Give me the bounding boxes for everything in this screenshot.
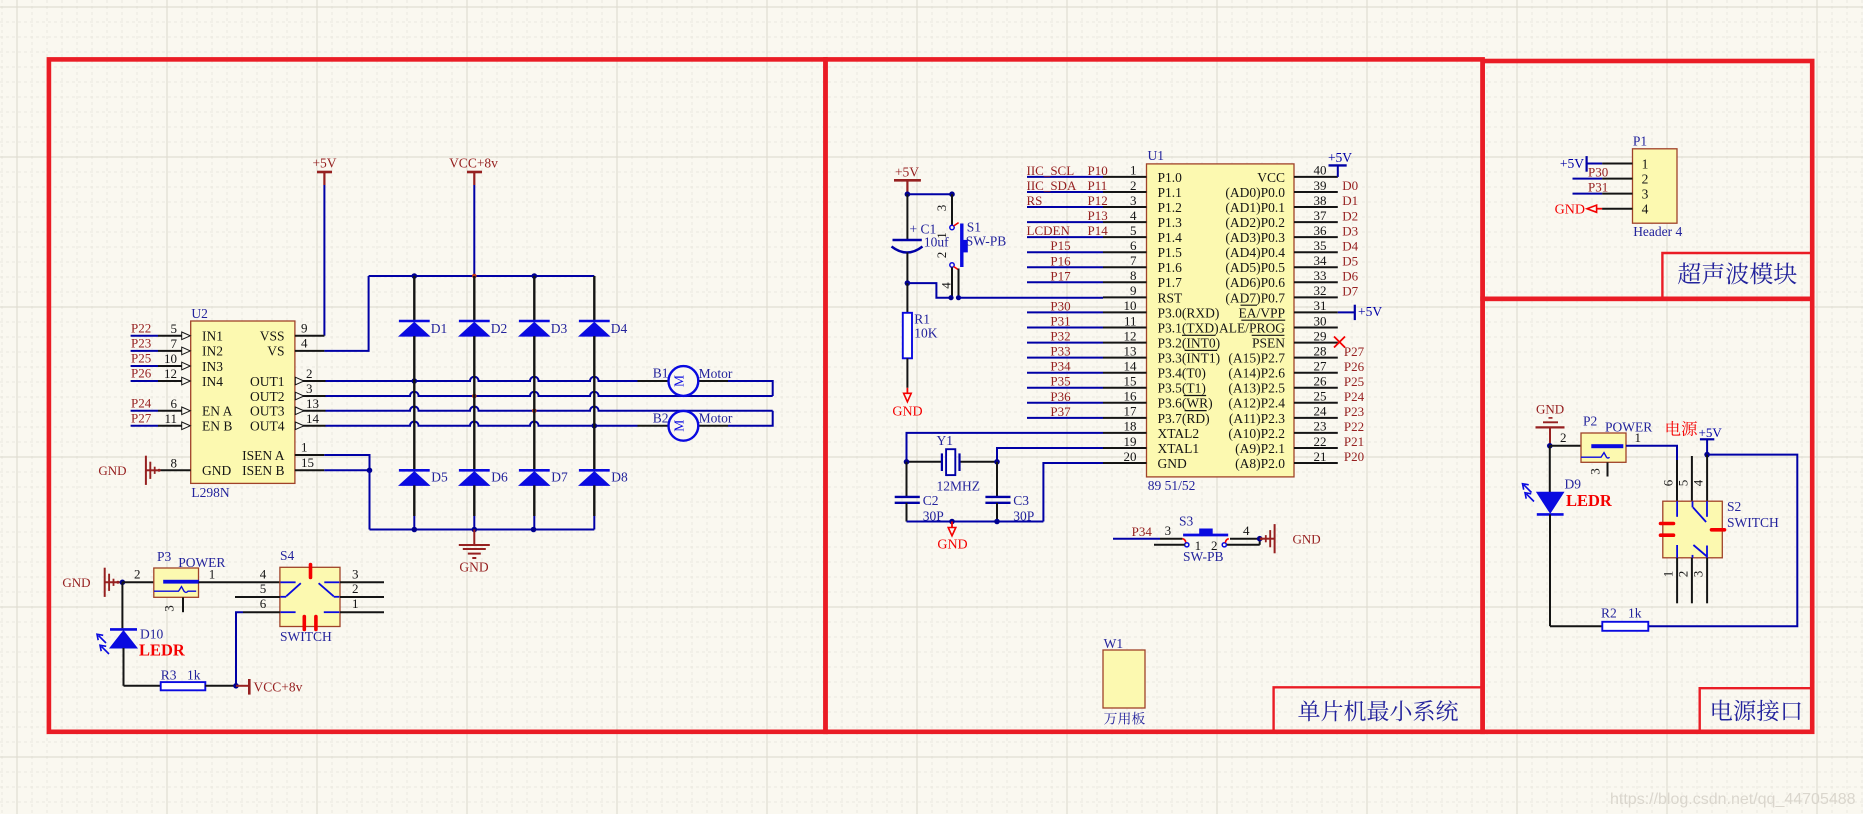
svg-text:P34: P34 bbox=[1050, 359, 1071, 374]
svg-text:P3.1(TXD): P3.1(TXD) bbox=[1158, 320, 1219, 335]
svg-text:19: 19 bbox=[1124, 434, 1137, 449]
svg-text:P31: P31 bbox=[1588, 179, 1608, 194]
junction dots ground bus bbox=[412, 527, 418, 533]
svg-text:P1.6: P1.6 bbox=[1158, 260, 1183, 275]
svg-text:9: 9 bbox=[1130, 283, 1137, 298]
svg-text:6: 6 bbox=[171, 396, 178, 411]
diode D4 bbox=[593, 276, 595, 321]
svg-text:P31: P31 bbox=[1050, 314, 1070, 329]
svg-text:M: M bbox=[671, 375, 686, 387]
svg-text:P1.0: P1.0 bbox=[1158, 170, 1183, 185]
wire C1 to RST bbox=[907, 283, 952, 298]
svg-text:S4: S4 bbox=[280, 548, 295, 563]
wire R3 to VCC junction bbox=[205, 685, 236, 687]
switch S2 body bbox=[1663, 501, 1723, 558]
svg-text:14: 14 bbox=[306, 411, 320, 426]
motor B1 bbox=[698, 380, 728, 382]
svg-text:Header 4: Header 4 bbox=[1633, 224, 1682, 239]
svg-text:D4: D4 bbox=[1342, 238, 1358, 253]
svg-text:(AD7)P0.7: (AD7)P0.7 bbox=[1225, 290, 1285, 305]
title box power interface bbox=[1700, 688, 1813, 732]
svg-text:P33: P33 bbox=[1050, 344, 1070, 359]
svg-text:35: 35 bbox=[1314, 238, 1327, 253]
title box MCU minimal system bbox=[1274, 687, 1483, 732]
svg-text:EA/VPP: EA/VPP bbox=[1238, 305, 1285, 320]
svg-text:21: 21 bbox=[1314, 449, 1327, 464]
svg-text:P14: P14 bbox=[1088, 223, 1109, 238]
svg-text:EN B: EN B bbox=[202, 419, 232, 434]
svg-text:1: 1 bbox=[1195, 538, 1202, 553]
red junction VCC+8v at D2 column bbox=[472, 274, 477, 279]
svg-text:SW-PB: SW-PB bbox=[966, 234, 1007, 249]
svg-text:3: 3 bbox=[1642, 187, 1649, 202]
svg-text:8: 8 bbox=[1130, 268, 1137, 283]
junction OUT4-D4 column bbox=[592, 423, 598, 429]
net label P30 at P1 pin 2 bbox=[1573, 178, 1603, 180]
svg-text:GND: GND bbox=[1536, 402, 1564, 417]
U2 pin ISEN A wire bbox=[295, 454, 324, 456]
svg-text:D5: D5 bbox=[1342, 254, 1358, 269]
svg-text:Motor: Motor bbox=[699, 366, 733, 381]
svg-text:D8: D8 bbox=[611, 469, 628, 484]
svg-text:P3.5(T1): P3.5(T1) bbox=[1158, 381, 1206, 396]
svg-text:LEDR: LEDR bbox=[1566, 491, 1613, 510]
VCC+8v top bus bbox=[369, 275, 595, 277]
wire P3 pin1 to S4 pin4 bbox=[199, 581, 280, 583]
red junction OUT2-D2 column bbox=[472, 394, 477, 399]
svg-text:4: 4 bbox=[260, 566, 267, 581]
wire GND junction to LED D10 bbox=[121, 582, 123, 628]
svg-text:VSS: VSS bbox=[260, 329, 285, 344]
header P1 body bbox=[1633, 149, 1678, 223]
svg-text:39: 39 bbox=[1314, 178, 1327, 193]
svg-text:2: 2 bbox=[1211, 538, 1218, 553]
wire LED to R3 bbox=[124, 685, 161, 687]
svg-text:ISEN B: ISEN B bbox=[242, 463, 284, 478]
wire U1 GND pin 20 bbox=[1043, 463, 1103, 522]
diode D6 bbox=[459, 469, 490, 472]
svg-text:P2: P2 bbox=[1583, 413, 1597, 428]
svg-text:D7: D7 bbox=[1342, 284, 1358, 299]
svg-text:(AD5)P0.5: (AD5)P0.5 bbox=[1225, 260, 1285, 275]
wire +5V to VSS bbox=[323, 185, 325, 336]
wire RST to U1 pin 9 bbox=[959, 297, 1104, 299]
svg-text:GND: GND bbox=[937, 538, 967, 553]
svg-text:3: 3 bbox=[306, 381, 313, 396]
capacitor C2 30P bbox=[906, 462, 908, 496]
svg-text:27: 27 bbox=[1314, 359, 1328, 374]
svg-text:IN4: IN4 bbox=[202, 374, 223, 389]
svg-text:+5V: +5V bbox=[895, 165, 919, 180]
svg-text:SWITCH: SWITCH bbox=[280, 629, 332, 644]
U1 overbar marks bbox=[1182, 334, 1216, 336]
svg-text:P22: P22 bbox=[131, 320, 151, 335]
svg-text:IIC_SCL: IIC_SCL bbox=[1027, 163, 1075, 178]
section border: MCU block bbox=[826, 59, 1483, 731]
U2 output pins OUT1-OUT4 bbox=[295, 380, 326, 382]
svg-text:2: 2 bbox=[352, 581, 359, 596]
svg-text:4: 4 bbox=[1642, 202, 1649, 217]
svg-text:GND: GND bbox=[1293, 531, 1321, 546]
wire OUT2 return loop bbox=[326, 392, 773, 396]
svg-text:11: 11 bbox=[164, 411, 177, 426]
svg-text:EN A: EN A bbox=[202, 404, 233, 419]
svg-text:D9: D9 bbox=[1565, 477, 1582, 492]
svg-text:https://blog.csdn.net/qq_44705: https://blog.csdn.net/qq_44705488 bbox=[1610, 791, 1856, 808]
svg-text:P1.2: P1.2 bbox=[1158, 200, 1182, 215]
svg-text:(A8)P2.0: (A8)P2.0 bbox=[1235, 456, 1285, 471]
svg-text:3: 3 bbox=[162, 605, 177, 612]
svg-text:11: 11 bbox=[1124, 313, 1137, 328]
connector P2 POWER bbox=[1581, 433, 1626, 462]
section border: power block bbox=[1483, 299, 1813, 732]
svg-text:(AD2)P0.2: (AD2)P0.2 bbox=[1225, 215, 1285, 230]
LED D10 bbox=[110, 628, 137, 631]
svg-text:5: 5 bbox=[1676, 480, 1691, 487]
svg-text:1: 1 bbox=[1660, 571, 1675, 578]
svg-text:33: 33 bbox=[1314, 268, 1327, 283]
svg-text:U2: U2 bbox=[191, 306, 208, 321]
ground symbol at U2 pin 8 bbox=[145, 456, 147, 485]
svg-text:R1: R1 bbox=[914, 311, 930, 326]
svg-text:P23: P23 bbox=[131, 336, 151, 351]
svg-text:1: 1 bbox=[1635, 430, 1642, 445]
svg-text:23: 23 bbox=[1314, 419, 1327, 434]
svg-text:Motor: Motor bbox=[699, 411, 733, 426]
svg-text:(AD3)P0.3: (AD3)P0.3 bbox=[1225, 230, 1285, 245]
wire VCC+8v to bus bbox=[473, 185, 475, 276]
S4 right leads pins 3 2 1 bbox=[340, 581, 384, 583]
S2 pin 5 lead bbox=[1691, 456, 1693, 501]
S4 red actuator marks bbox=[309, 565, 313, 578]
svg-text:P3.2(INT0): P3.2(INT0) bbox=[1158, 336, 1221, 351]
svg-text:W1: W1 bbox=[1104, 636, 1124, 651]
wire GND to P3 pin 2 bbox=[122, 581, 153, 583]
S2 contacts bbox=[1676, 501, 1678, 517]
svg-text:15: 15 bbox=[1124, 374, 1137, 389]
junction dots on top bus bbox=[412, 273, 418, 279]
earth ground symbol below diode bus bbox=[473, 530, 475, 545]
svg-text:+5V: +5V bbox=[1699, 425, 1723, 440]
S2 pin 4 lead bbox=[1706, 455, 1708, 502]
svg-text:2: 2 bbox=[934, 252, 949, 259]
svg-text:38: 38 bbox=[1314, 193, 1327, 208]
svg-text:P25: P25 bbox=[1344, 374, 1364, 389]
svg-text:IIC_SDA: IIC_SDA bbox=[1027, 178, 1077, 193]
svg-text:U1: U1 bbox=[1148, 148, 1165, 163]
diode D3 bbox=[533, 276, 535, 321]
svg-text:D2: D2 bbox=[491, 321, 508, 336]
svg-text:P30: P30 bbox=[1588, 164, 1608, 179]
svg-text:2: 2 bbox=[306, 366, 313, 381]
svg-text:25: 25 bbox=[1314, 389, 1327, 404]
svg-text:(A10)P2.2: (A10)P2.2 bbox=[1228, 426, 1285, 441]
svg-text:26: 26 bbox=[1314, 374, 1328, 389]
svg-text:2: 2 bbox=[1130, 178, 1137, 193]
S4 contacts bbox=[280, 581, 295, 583]
svg-text:10: 10 bbox=[1124, 298, 1137, 313]
svg-text:4: 4 bbox=[1243, 523, 1250, 538]
svg-text:GND: GND bbox=[1158, 456, 1187, 471]
svg-text:4: 4 bbox=[938, 282, 953, 289]
svg-text:+5V: +5V bbox=[1358, 304, 1382, 319]
svg-text:P12: P12 bbox=[1088, 193, 1108, 208]
svg-text:7: 7 bbox=[171, 336, 178, 351]
svg-text:36: 36 bbox=[1314, 223, 1328, 238]
IC U1 89C51 body bbox=[1147, 164, 1295, 477]
no-connect X at pin 29 bbox=[1334, 337, 1345, 348]
svg-text:ALE/PROG: ALE/PROG bbox=[1219, 320, 1285, 335]
svg-text:P26: P26 bbox=[1344, 359, 1365, 374]
svg-text:16: 16 bbox=[1124, 389, 1138, 404]
svg-text:28: 28 bbox=[1314, 343, 1327, 358]
svg-text:10K: 10K bbox=[914, 325, 938, 340]
svg-text:XTAL2: XTAL2 bbox=[1158, 426, 1200, 441]
svg-text:4: 4 bbox=[301, 336, 308, 351]
U1 left pin leads bbox=[1103, 176, 1147, 178]
svg-text:P1.1: P1.1 bbox=[1158, 185, 1182, 200]
svg-text:1: 1 bbox=[209, 566, 216, 581]
svg-text:P22: P22 bbox=[1344, 419, 1364, 434]
red junction OUT3-D3 column bbox=[532, 409, 537, 414]
svg-text:18: 18 bbox=[1124, 419, 1137, 434]
svg-text:(AD0)P0.0: (AD0)P0.0 bbox=[1225, 185, 1285, 200]
svg-text:D1: D1 bbox=[431, 321, 448, 336]
svg-text:VCC+8v: VCC+8v bbox=[254, 679, 303, 694]
svg-text:OUT2: OUT2 bbox=[250, 389, 285, 404]
capacitor C3 30P bbox=[996, 462, 998, 496]
svg-text:P3.6(WR): P3.6(WR) bbox=[1158, 396, 1213, 411]
svg-text:D7: D7 bbox=[551, 469, 568, 484]
U1 right pin leads bbox=[1294, 176, 1338, 178]
wire crystal ground bus bbox=[907, 521, 1044, 523]
svg-text:D5: D5 bbox=[431, 469, 448, 484]
svg-text:15: 15 bbox=[301, 455, 314, 470]
diode D7 bbox=[519, 469, 550, 472]
svg-text:R3: R3 bbox=[161, 667, 177, 682]
svg-text:GND: GND bbox=[98, 463, 126, 478]
diode D1 bbox=[413, 276, 415, 321]
svg-text:P1.7: P1.7 bbox=[1158, 275, 1183, 290]
svg-text:OUT3: OUT3 bbox=[250, 404, 285, 419]
junction ISEN A/B bbox=[367, 468, 373, 474]
svg-text:2: 2 bbox=[1642, 172, 1649, 187]
resistor R3 1k bbox=[161, 682, 206, 690]
svg-text:(AD4)P0.4: (AD4)P0.4 bbox=[1225, 245, 1285, 260]
svg-text:P15: P15 bbox=[1050, 238, 1070, 253]
perfboard W1 bbox=[1103, 650, 1145, 708]
motor B2 bbox=[698, 425, 728, 427]
svg-text:(A15)P2.7: (A15)P2.7 bbox=[1228, 351, 1285, 366]
svg-text:Y1: Y1 bbox=[937, 433, 954, 448]
svg-text:VCC: VCC bbox=[1257, 170, 1285, 185]
svg-text:13: 13 bbox=[1124, 343, 1137, 358]
U2 input pins with net labels P22 P23 P25 P26 P24 P27 bbox=[131, 335, 158, 337]
S2 red actuator marks bbox=[1661, 522, 1674, 526]
svg-text:1: 1 bbox=[1130, 163, 1137, 178]
ground symbol at S3 bbox=[1260, 538, 1275, 540]
svg-text:7: 7 bbox=[1130, 253, 1137, 268]
svg-text:P27: P27 bbox=[1344, 344, 1365, 359]
svg-text:RST: RST bbox=[1158, 290, 1184, 305]
svg-text:+5V: +5V bbox=[1560, 156, 1584, 171]
svg-text:XTAL1: XTAL1 bbox=[1158, 441, 1200, 456]
svg-text:GND: GND bbox=[62, 575, 90, 590]
ground bus under diodes bbox=[370, 529, 595, 531]
LED D9 bbox=[1549, 446, 1551, 493]
svg-text:+5V: +5V bbox=[1328, 150, 1352, 165]
svg-text:C3: C3 bbox=[1013, 493, 1029, 508]
IC U2 L298N body bbox=[191, 321, 295, 483]
S4 pin 6 lead bbox=[243, 611, 280, 613]
svg-text:1: 1 bbox=[301, 440, 308, 455]
wire OUT3 to motor B2 bbox=[326, 406, 773, 410]
svg-text:P25: P25 bbox=[131, 351, 151, 366]
junction C1 R1 bbox=[905, 280, 911, 286]
svg-text:P10: P10 bbox=[1088, 163, 1108, 178]
svg-text:P24: P24 bbox=[131, 395, 152, 410]
svg-text:2: 2 bbox=[134, 566, 141, 581]
switch S3 SW-PB bbox=[1113, 538, 1160, 540]
capacitor C1 10uf bbox=[906, 194, 908, 239]
svg-text:(A12)P2.4: (A12)P2.4 bbox=[1228, 396, 1285, 411]
svg-text:S2: S2 bbox=[1727, 499, 1741, 514]
svg-text:IN2: IN2 bbox=[202, 344, 223, 359]
section border: motor driver block bbox=[49, 59, 826, 731]
svg-text:D4: D4 bbox=[611, 321, 628, 336]
svg-text:PSEN: PSEN bbox=[1252, 336, 1285, 351]
P2 pin 3 bbox=[1607, 462, 1609, 476]
svg-text:P3.3(INT1): P3.3(INT1) bbox=[1158, 351, 1221, 366]
svg-text:32: 32 bbox=[1314, 283, 1327, 298]
svg-text:5: 5 bbox=[260, 581, 267, 596]
junction +5V S2 bbox=[1704, 452, 1710, 458]
svg-text:12MHZ: 12MHZ bbox=[937, 478, 981, 493]
junction S3 to ground bbox=[1257, 536, 1263, 542]
U1 left wires with net labels bbox=[1027, 176, 1103, 178]
U2 GND pin 8 bbox=[160, 469, 190, 471]
S2 bottom leads bbox=[1676, 558, 1678, 604]
svg-text:ISEN A: ISEN A bbox=[242, 448, 285, 463]
svg-text:9: 9 bbox=[301, 320, 308, 335]
svg-text:LCDEN: LCDEN bbox=[1027, 223, 1071, 238]
ground arrow below R1 bbox=[906, 388, 908, 393]
svg-text:40: 40 bbox=[1314, 163, 1327, 178]
ground symbol at P3 bbox=[104, 568, 106, 597]
U2 pin ISEN B wire bbox=[295, 469, 324, 471]
svg-text:1k: 1k bbox=[1628, 605, 1642, 620]
svg-text:POWER: POWER bbox=[1605, 420, 1652, 435]
svg-text:6: 6 bbox=[1660, 479, 1675, 486]
crystal Y1 12MHZ bbox=[907, 433, 1104, 462]
svg-text:P3: P3 bbox=[157, 549, 172, 564]
svg-text:3: 3 bbox=[352, 566, 359, 581]
switch S4 body bbox=[280, 567, 340, 626]
svg-text:10: 10 bbox=[164, 351, 177, 366]
svg-text:P27: P27 bbox=[131, 410, 152, 425]
svg-text:SWITCH: SWITCH bbox=[1727, 515, 1779, 530]
resistor R2 1k bbox=[1550, 625, 1602, 627]
svg-text:P32: P32 bbox=[1050, 329, 1070, 344]
label power supply red bbox=[1667, 421, 1681, 436]
svg-text:B2: B2 bbox=[653, 410, 669, 425]
svg-text:P17: P17 bbox=[1050, 268, 1071, 283]
svg-text:5: 5 bbox=[1130, 223, 1137, 238]
wire OUT4 to motor B2 bbox=[326, 421, 638, 425]
svg-text:6: 6 bbox=[1130, 238, 1137, 253]
svg-text:P37: P37 bbox=[1050, 404, 1071, 419]
svg-text:D10: D10 bbox=[140, 627, 163, 642]
svg-text:+5V: +5V bbox=[312, 156, 336, 171]
svg-text:5: 5 bbox=[171, 321, 178, 336]
svg-text:(A11)P2.3: (A11)P2.3 bbox=[1229, 411, 1285, 426]
svg-text:P21: P21 bbox=[1344, 434, 1364, 449]
svg-text:IN1: IN1 bbox=[202, 329, 223, 344]
svg-text:22: 22 bbox=[1314, 434, 1327, 449]
svg-text:M: M bbox=[671, 420, 686, 432]
S4 pin 5 lead bbox=[235, 596, 280, 598]
svg-text:(AD6)P0.6: (AD6)P0.6 bbox=[1225, 275, 1285, 290]
net label P31 at P1 pin 3 bbox=[1573, 193, 1603, 195]
connector P3 POWER bbox=[154, 568, 199, 597]
svg-text:29: 29 bbox=[1314, 328, 1327, 343]
svg-text:P3.0(RXD): P3.0(RXD) bbox=[1158, 305, 1220, 320]
U2 pin VS wire to bus bbox=[295, 350, 325, 352]
wire +5V to right loop bbox=[1648, 455, 1797, 627]
svg-text:20: 20 bbox=[1124, 449, 1137, 464]
svg-text:P11: P11 bbox=[1088, 178, 1108, 193]
svg-text:89 51/52: 89 51/52 bbox=[1148, 478, 1196, 493]
wire OUT1 to motor B1 bbox=[326, 377, 638, 381]
svg-text:P1.4: P1.4 bbox=[1158, 230, 1183, 245]
svg-text:3: 3 bbox=[934, 205, 949, 212]
svg-text:1k: 1k bbox=[187, 667, 201, 682]
diode D5 bbox=[399, 469, 430, 472]
svg-text:P16: P16 bbox=[1050, 253, 1071, 268]
U2 pin VSS wire to +5V bbox=[295, 335, 325, 337]
svg-text:12: 12 bbox=[164, 366, 177, 381]
wire +5V node bbox=[907, 193, 952, 195]
svg-text:IN3: IN3 bbox=[202, 359, 223, 374]
svg-text:1: 1 bbox=[934, 232, 949, 239]
svg-text:P3.7(RD): P3.7(RD) bbox=[1158, 411, 1210, 426]
svg-text:P35: P35 bbox=[1050, 374, 1070, 389]
wire ISEN to ground bus bbox=[369, 470, 371, 529]
svg-text:D3: D3 bbox=[551, 321, 568, 336]
svg-text:S3: S3 bbox=[1179, 513, 1194, 528]
svg-text:R2: R2 bbox=[1601, 605, 1617, 620]
ground arrow at crystal bus bbox=[951, 522, 953, 528]
svg-text:6: 6 bbox=[260, 596, 267, 611]
svg-text:P23: P23 bbox=[1344, 404, 1364, 419]
junction R3 VCC bbox=[233, 683, 239, 689]
diode D2 bbox=[473, 276, 475, 321]
svg-text:RS: RS bbox=[1027, 193, 1043, 208]
svg-text:3: 3 bbox=[1691, 571, 1706, 578]
svg-text:34: 34 bbox=[1314, 253, 1328, 268]
svg-text:P13: P13 bbox=[1088, 208, 1108, 223]
svg-text:37: 37 bbox=[1314, 208, 1328, 223]
svg-text:C2: C2 bbox=[923, 493, 939, 508]
svg-text:P1.3: P1.3 bbox=[1158, 215, 1183, 230]
svg-text:17: 17 bbox=[1124, 404, 1138, 419]
svg-text:3: 3 bbox=[1588, 468, 1603, 475]
svg-text:13: 13 bbox=[306, 396, 319, 411]
section border: ultrasonic block bbox=[1483, 61, 1813, 299]
svg-text:(A14)P2.6: (A14)P2.6 bbox=[1228, 366, 1285, 381]
svg-text:D1: D1 bbox=[1342, 193, 1358, 208]
svg-text:D6: D6 bbox=[1342, 269, 1358, 284]
